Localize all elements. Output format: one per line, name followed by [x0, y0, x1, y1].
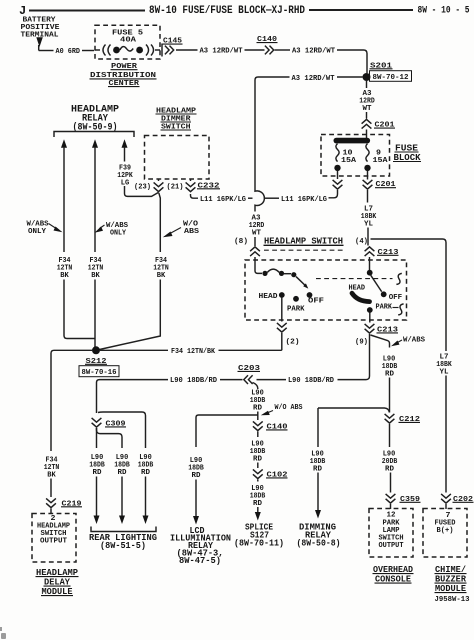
power distribution center name [90, 63, 157, 88]
svg-text:RD: RD [313, 465, 322, 473]
headlamp switch pin 8 connector [250, 247, 260, 256]
wire to PDC edge [155, 49, 160, 51]
rear lighting reference [89, 533, 157, 551]
wire L11 to dimmer pin 21 [191, 194, 199, 198]
internal linkage dashed (lower) [393, 304, 404, 315]
svg-text:B(+): B(+) [437, 527, 454, 535]
wire A3 12RD/WT (C145 to C140) [176, 49, 198, 51]
wire A3 12RD/WT (S201 left branch) [255, 75, 363, 191]
wire L90 18DB/RD horizontal (left of C203) [97, 377, 243, 410]
svg-text:8W-70-16: 8W-70-16 [82, 369, 117, 377]
battery positive terminal label [21, 17, 61, 40]
w/abs callout [391, 336, 425, 346]
wire label A3 12RD WT [249, 215, 265, 238]
wire label L90 18DB RD (dimming) [310, 450, 326, 473]
switch pivot arc [267, 269, 279, 272]
splice S127 reference [234, 522, 284, 548]
wire into headlamp switch pin 8 [254, 237, 256, 246]
splice S201 [363, 62, 412, 82]
chime/buzzer module box [423, 509, 467, 558]
svg-text:J958W-13: J958W-13 [435, 596, 470, 604]
connector C219 [46, 498, 82, 508]
PDC cavity symbol )) [146, 45, 154, 56]
wire label L90 18DB RD (w/o abs) [250, 389, 266, 412]
svg-text:15A: 15A [373, 157, 389, 165]
switch common dot (right) [367, 270, 373, 276]
headlamp delay module name [36, 568, 79, 597]
svg-text:A3 12RD/WT: A3 12RD/WT [292, 48, 335, 56]
rear lighting arrows [94, 477, 149, 525]
switch contact dot c [291, 272, 296, 277]
w/abs only callout 2 [95, 222, 129, 238]
svg-text:BK: BK [47, 471, 56, 479]
svg-text:L11 16PK/LG: L11 16PK/LG [200, 196, 246, 204]
svg-text:LG: LG [121, 179, 130, 187]
wire C201 to fuse block bus [366, 130, 368, 139]
svg-text:WT: WT [363, 105, 372, 113]
connector C213 (top) [365, 247, 399, 257]
svg-text:(2): (2) [286, 338, 300, 346]
lcd illumination relay reference [170, 526, 231, 566]
PDC cavity symbol (( [103, 45, 111, 56]
svg-text:12: 12 [387, 511, 396, 519]
wire into connector C140 [257, 415, 259, 420]
svg-text:ABS: ABS [184, 228, 200, 236]
wire label L7 18BK YL (chime) [436, 353, 452, 376]
fuse 10 node dot [334, 165, 340, 171]
connector C201 (top) [362, 119, 395, 129]
internal linkage dashed (upper) [316, 273, 402, 284]
overhead console name [373, 565, 414, 585]
svg-text:A3 12RD/WT: A3 12RD/WT [200, 48, 243, 56]
svg-text:ONLY: ONLY [110, 230, 126, 238]
svg-text:OUTPUT: OUTPUT [379, 542, 404, 550]
PARK contact dot (right) [367, 307, 373, 313]
svg-text:(8): (8) [234, 238, 248, 246]
svg-text:RD: RD [253, 500, 262, 508]
svg-text:PARK: PARK [287, 305, 305, 313]
wire label L90 18DB RD (rear 1) [89, 454, 105, 477]
wire label L90 18DB RD (rear 3) [138, 454, 154, 477]
headlamp switch box [245, 260, 407, 320]
overhead console box [369, 509, 413, 558]
OFF contact dot (left) [307, 292, 313, 298]
OFF contact dot (right) [381, 291, 387, 297]
wire label F34 12TN BK (2) [88, 257, 104, 280]
wire A3 12RD/WT (C140 to S201) [275, 49, 291, 51]
svg-text:W/O ABS: W/O ABS [275, 404, 303, 412]
switch common wire from pin 4 [369, 257, 371, 270]
rear lighting branch 3 tap [98, 412, 146, 448]
arrow up to relay (F39 wire) [122, 139, 128, 148]
header rule right [309, 9, 413, 11]
connector C232 [197, 182, 220, 190]
wire label L90 18DB RD (C140-C102) [250, 440, 266, 463]
scan artifact marks [0, 627, 6, 639]
battery positive terminal symbol [36, 37, 43, 50]
svg-text:A0 6RD: A0 6RD [56, 48, 81, 56]
wire L7 18BK YL (fuse 9 down) [367, 190, 369, 203]
svg-text:(4): (4) [355, 238, 368, 246]
PARK contact dot (left) [293, 296, 299, 302]
headlamp switch pin 2 connector [277, 323, 287, 332]
wire F39 12PK LG [124, 147, 126, 162]
wire A0 6RD [39, 50, 54, 52]
connector C140 (lower) [253, 421, 288, 431]
lcd relay tap wire [196, 412, 258, 448]
wire label F34 12TN BK (delay) [44, 456, 60, 479]
wire label L90 18DB RD (lcd) [188, 457, 204, 480]
wire A3 down from S201 [366, 81, 368, 88]
svg-text:ONLY: ONLY [28, 228, 46, 236]
w/o abs branch from C203 [253, 383, 258, 390]
fuse block box [321, 135, 390, 177]
fuse 9 label [373, 150, 389, 166]
wire label F34 12TN BK (1) [57, 257, 73, 280]
wire label L90 18DB RD (pin 9) [382, 355, 398, 378]
arrow up to relay (wire 2) [92, 139, 98, 148]
wire w/abs to C212 [389, 378, 391, 413]
headlamp dimmer switch label [156, 107, 197, 131]
w/abs only callout 1 [27, 220, 63, 236]
svg-text:8W-70-12: 8W-70-12 [373, 74, 409, 82]
switch wiper arm (left group) [296, 277, 306, 286]
wire F34 (1) lower [64, 280, 95, 339]
switch link b-c [284, 273, 291, 275]
svg-text:8W-10 FUSE/FUSE BLOCK—XJ-RHD: 8W-10 FUSE/FUSE BLOCK—XJ-RHD [149, 5, 305, 17]
wire label L90 18DB RD (rear 2) [114, 454, 130, 477]
svg-text:L11 16PK/LG: L11 16PK/LG [281, 196, 327, 204]
connector C140 [257, 36, 278, 54]
wire F34 (3) lower [100, 280, 161, 350]
fuse 9 node dot [364, 165, 370, 171]
svg-text:L90 18DB/RD: L90 18DB/RD [170, 377, 217, 385]
wire L90 20DB RD to overhead console [389, 424, 391, 447]
lcd illumination relay arrow [193, 480, 199, 525]
wire into PDC [95, 49, 100, 51]
arrow up to relay (wire 1) [61, 139, 67, 148]
svg-text:40A: 40A [120, 37, 137, 45]
rear lighting branch 1 wire [96, 428, 98, 448]
svg-text:PARK: PARK [376, 304, 393, 312]
dimmer pin 21 [167, 179, 196, 192]
w/o abs callout (F34) [163, 220, 200, 237]
wire crossover hop (A3 over L11) [255, 191, 264, 212]
wire F34 (2) upper [94, 147, 96, 252]
connector C212 [385, 414, 421, 424]
headlamp dimmer switch box [145, 136, 210, 180]
power distribution center box [95, 25, 160, 59]
wire dimming relay [317, 408, 319, 510]
switch contact dot b [279, 271, 284, 276]
switch common feed from pin 8 [255, 257, 262, 273]
svg-text:L90 18DB/RD: L90 18DB/RD [288, 377, 334, 385]
connector C203 [238, 365, 261, 384]
svg-text:(21): (21) [167, 184, 184, 192]
connector C309 [92, 410, 126, 429]
svg-text:RD: RD [385, 465, 394, 473]
switch contact dot a [262, 271, 267, 276]
headlamp relay label [71, 105, 119, 134]
rear lighting bracket [91, 527, 156, 532]
headlamp relay bracket [54, 132, 134, 138]
svg-text:F34 12TN/BK: F34 12TN/BK [171, 348, 215, 356]
wire pin 2 to F34 [281, 333, 283, 350]
switch wiper bold (right group, in PARK) [352, 293, 370, 301]
svg-text:RD: RD [118, 469, 127, 477]
svg-text:OUTPUT: OUTPUT [40, 537, 67, 545]
headlamp switch name [264, 236, 344, 250]
svg-text:YL: YL [440, 368, 449, 376]
wire F34 12TN/BK to headlamp switch pin 2 [100, 348, 282, 356]
svg-text:BK: BK [60, 272, 69, 280]
fuse 10 label [341, 150, 357, 166]
svg-text:HEAD: HEAD [259, 293, 279, 301]
HEAD contact dot (left) [279, 292, 285, 298]
svg-text:BK: BK [91, 272, 100, 280]
fuse 9 element [366, 144, 369, 162]
wire L7 to C202 [445, 376, 447, 493]
svg-text:YL: YL [364, 220, 373, 228]
fuse 10 element [336, 144, 339, 162]
wire HEAD contact to pin 2 [281, 297, 283, 322]
splice S212 [79, 346, 119, 377]
wire F34 (1) upper [63, 147, 65, 252]
svg-text:OFF: OFF [389, 294, 403, 302]
wire label F34 12TN BK (3) [153, 257, 169, 280]
svg-text:RD: RD [253, 404, 262, 412]
w/o abs callout (L90) [261, 404, 303, 415]
wire F34 to headlamp delay module [51, 350, 92, 451]
svg-text:RD: RD [385, 370, 394, 378]
connector C145 [162, 38, 183, 57]
connector C202 [441, 494, 473, 504]
wire label L90 18DB RD (to splice) [250, 485, 266, 508]
header rule left [29, 10, 145, 12]
svg-text:RD: RD [253, 455, 262, 463]
svg-text:(8W-70-11): (8W-70-11) [234, 538, 284, 548]
svg-text:(8W-50-8): (8W-50-8) [297, 538, 341, 548]
svg-text:OFF: OFF [308, 297, 325, 305]
headlamp delay module box [32, 514, 76, 563]
svg-text:(9): (9) [355, 338, 368, 346]
fuse 10 output connector [329, 171, 343, 198]
wire PARK contact to pin 9 [369, 313, 371, 323]
w/abs branch wire [371, 335, 390, 348]
rear lighting branch 2 tap [97, 428, 123, 448]
fuse block bus bar [334, 138, 371, 144]
svg-text:A3 12RD/WT: A3 12RD/WT [292, 75, 335, 83]
connector C359 [386, 494, 421, 504]
svg-text:W/ABS: W/ABS [403, 336, 425, 344]
svg-text:(8W-51-5): (8W-51-5) [100, 541, 146, 551]
dimming relay reference [297, 522, 341, 548]
connector C102 [253, 469, 288, 479]
svg-text:15A: 15A [341, 157, 357, 165]
svg-text:BK: BK [157, 272, 166, 280]
wire pin 9 down [338, 334, 370, 380]
wire L7 branch to chime module [371, 239, 447, 351]
svg-text:RD: RD [93, 469, 102, 477]
svg-text:8W - 10 - 5: 8W - 10 - 5 [418, 6, 470, 17]
fuse block name [393, 143, 421, 163]
wire L11 segment [265, 197, 280, 199]
chime/buzzer module name [435, 565, 467, 594]
svg-text:RD: RD [192, 472, 201, 480]
fuse 9 output to connector C201 (bottom) [367, 171, 369, 180]
dimmer pin 23 [134, 179, 163, 192]
wire F34 (3) from pin 23 junction [159, 193, 161, 252]
svg-text:RD: RD [141, 469, 150, 477]
dimming relay tap wire [318, 408, 389, 413]
connector C213 (bottom) [365, 324, 399, 335]
arrow to splice S127 [255, 507, 261, 521]
svg-text:8W-47-5): 8W-47-5) [179, 556, 221, 566]
switch wiper arm (right, thin to OFF) [371, 275, 382, 292]
svg-text:(23): (23) [134, 184, 151, 192]
wire F34 (2) lower [94, 280, 96, 348]
svg-text:WT: WT [252, 230, 261, 238]
fuse 5 element [113, 47, 143, 54]
